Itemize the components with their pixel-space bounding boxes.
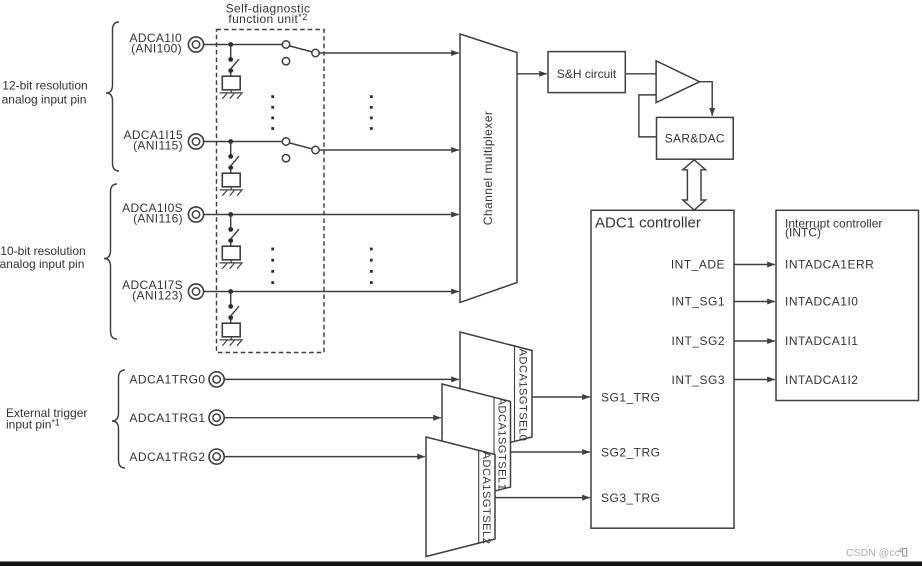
pin ADCA1I0S pad [188, 207, 203, 222]
svg-text:analog input pin: analog input pin [2, 93, 87, 107]
svg-text:ADCA1SGTSEL1: ADCA1SGTSEL1 [495, 398, 507, 491]
svg-text:Channel multiplexer: Channel multiplexer [481, 111, 495, 226]
self-diagnostic dashed box [217, 30, 325, 353]
SAR&DAC box U-SAR [657, 117, 734, 159]
wire SGTSEL2 to SG3_TRG [495, 497, 590, 499]
wire INT_SG1 to INTC [734, 301, 775, 303]
svg-text:ADCA1TRG0: ADCA1TRG0 [129, 373, 205, 387]
bidirectional hollow arrow SAR&DAC to ADC1 controller [683, 160, 706, 210]
svg-text:INT_SG3: INT_SG3 [671, 373, 725, 387]
wire junction down ANI100 [230, 45, 232, 58]
svg-text:(ANI115): (ANI115) [133, 139, 183, 153]
bottom separator bar [0, 562, 922, 566]
pin ADCA1I7S pad [188, 284, 203, 299]
wire junction down ANI123 [230, 292, 232, 305]
wire ADCA1TRG2 to SGTSEL2 [224, 456, 425, 458]
pin ADCA1I7S (ANI123) label [122, 278, 183, 303]
svg-text:ADC1 controller: ADC1 controller [595, 215, 701, 232]
svg-text:S&H circuit: S&H circuit [557, 67, 617, 81]
label: External trigger input pin*1 [6, 406, 87, 432]
wire ANI123 to multiplexer [204, 291, 459, 293]
switch SW-diag ANI115 [228, 154, 239, 173]
wire comparator output to SAR&DAC [700, 82, 713, 116]
svg-text:CSDN @cc: CSDN @cc [846, 547, 900, 559]
brace 12-bit group [106, 22, 119, 171]
ground ANI116 [220, 260, 243, 269]
svg-text:10-bit resolution: 10-bit resolution [0, 244, 85, 258]
svg-text:input pin*1: input pin*1 [6, 418, 60, 432]
wire SAR&DAC feedback to comparator [639, 95, 657, 137]
discharge box ANI123 [222, 323, 240, 337]
switch SW-diag ANI116 [228, 227, 239, 246]
switch SW-series ANI115 [282, 138, 319, 162]
svg-text:SG2_TRG: SG2_TRG [601, 446, 661, 460]
svg-text:ADCA1TRG1: ADCA1TRG1 [129, 411, 205, 425]
wire ANI116 to multiplexer [204, 214, 459, 216]
svg-text:INT_SG2: INT_SG2 [671, 334, 725, 348]
svg-text:analog input pin: analog input pin [0, 257, 84, 271]
trigger selector U-SGTSEL1 [442, 384, 511, 505]
svg-text:(INTC): (INTC) [785, 226, 821, 240]
svg-text:ADCA1SGTSEL2: ADCA1SGTSEL2 [480, 452, 492, 545]
wire INT_ADE to INTC [734, 264, 775, 266]
wire junction down ANI115 [230, 142, 232, 155]
wire ANI100 pad to switch [204, 44, 283, 46]
svg-text:INTADCA1I0: INTADCA1I0 [785, 295, 858, 309]
ground ANI100 [220, 90, 243, 99]
dots column 12-bit inside box [271, 95, 274, 130]
Interrupt controller box U-INTC [776, 210, 919, 400]
dots column 10-bit outside box [370, 248, 373, 284]
svg-text:INTADCA1I2: INTADCA1I2 [785, 373, 858, 387]
pin ADCA1I0S (ANI116) label [122, 201, 183, 226]
wire S&H to comparator [625, 73, 656, 75]
svg-text:INTADCA1ERR: INTADCA1ERR [785, 258, 874, 272]
svg-text:INT_SG1: INT_SG1 [671, 295, 725, 309]
wire ANI115 switch to multiplexer [319, 149, 459, 151]
pin ADCA1I15 pad [188, 134, 203, 149]
ground ANI115 [220, 187, 243, 196]
svg-text:4: 4 [898, 548, 902, 555]
switch SW-diag ANI123 [228, 304, 239, 323]
S&H circuit box U-SH [548, 52, 625, 93]
svg-text:INTADCA1I1: INTADCA1I1 [785, 334, 858, 348]
svg-text:INT_ADE: INT_ADE [671, 258, 725, 272]
svg-text:(ANI116): (ANI116) [133, 212, 183, 226]
watermark CSDN [846, 547, 907, 559]
label: Self-diagnostic function unit*2 [226, 2, 311, 27]
node junction ANI116 [228, 212, 233, 217]
brace external trigger group [112, 370, 125, 468]
switch SW-series ANI100 [282, 41, 319, 65]
node junction ANI123 [228, 289, 233, 294]
pin ADCA1I0 (ANI100) label [130, 31, 182, 56]
switch SW-diag ANI100 (to discharge box) [228, 57, 239, 76]
wire ANI115 pad to switch [204, 141, 283, 143]
svg-text:SG1_TRG: SG1_TRG [601, 391, 661, 405]
pin ADCA1TRG1 pad [209, 410, 224, 425]
wire junction down ANI116 [230, 215, 232, 228]
pin ADCA1TRG2 pad [209, 449, 224, 464]
svg-text:12-bit resolution: 12-bit resolution [2, 79, 87, 93]
svg-text:ADCA1SGTSEL0: ADCA1SGTSEL0 [516, 349, 528, 442]
label: 10-bit resolution analog input pin [0, 244, 86, 271]
svg-text:function unit*2: function unit*2 [228, 12, 307, 26]
wire ADCA1TRG0 to SGTSEL0 [224, 378, 459, 380]
label: 12-bit resolution analog input pin [2, 79, 88, 107]
wire ADCA1TRG1 to SGTSEL1 [224, 417, 441, 419]
ADC1 controller box U-ADC1 [591, 210, 734, 528]
trigger selector U-SGTSEL2 [426, 437, 495, 557]
wire multiplexer to S&H [517, 73, 547, 75]
wire SGTSEL0 to SG1_TRG [532, 396, 590, 398]
wire INT_SG2 to INTC [734, 340, 775, 342]
dots column 10-bit inside box [271, 248, 274, 284]
svg-text:(ANI123): (ANI123) [132, 289, 183, 303]
wire INT_SG3 to INTC [734, 379, 775, 381]
svg-text:(ANI100): (ANI100) [131, 42, 182, 56]
discharge box ANI115 [222, 173, 240, 187]
node junction ANI115 [228, 139, 233, 144]
discharge box ANI100 [222, 76, 240, 90]
wire ANI100 switch to multiplexer [319, 52, 459, 54]
svg-text:SG3_TRG: SG3_TRG [601, 491, 661, 505]
ground ANI123 [220, 337, 243, 346]
trigger selector U-SGTSEL0 [460, 332, 532, 455]
svg-text:ADCA1TRG2: ADCA1TRG2 [129, 450, 205, 464]
node junction ANI100 [228, 42, 233, 47]
pin ADCA1I0 pad [188, 37, 203, 52]
pin ADCA1TRG0 pad [209, 372, 224, 387]
dots column 12-bit outside box [370, 95, 373, 130]
pin ADCA1I15 (ANI115) label [124, 128, 184, 153]
brace 10-bit group [104, 184, 117, 339]
wire SGTSEL1 to SG2_TRG [511, 451, 590, 453]
svg-text:SAR&DAC: SAR&DAC [665, 132, 725, 146]
op-amp comparator U-CMP [656, 61, 700, 103]
discharge box ANI116 [222, 246, 240, 260]
channel multiplexer U-MUX [460, 34, 517, 303]
